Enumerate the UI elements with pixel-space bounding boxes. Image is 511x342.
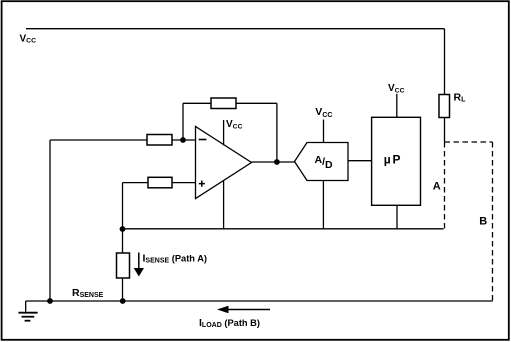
svg-text:B: B — [479, 216, 487, 228]
wire uP Vcc lead — [396, 94, 398, 118]
wire R3 left — [123, 182, 149, 184]
wire signal bus — [123, 228, 444, 230]
wire sense right vertical upper — [122, 183, 124, 253]
wire op-amp output — [252, 161, 295, 163]
wire A/D to uP — [348, 160, 372, 162]
wire Vcc rail — [26, 28, 445, 30]
wire load bus bottom — [26, 300, 493, 302]
node output junction — [274, 159, 280, 165]
wire RL top lead — [444, 29, 446, 95]
node sense left junction — [47, 298, 53, 304]
wire uP ground lead — [396, 205, 398, 229]
node feedback junction — [180, 137, 186, 143]
resistor RL — [439, 95, 450, 118]
wire A/D Vcc lead — [323, 120, 325, 143]
resistor R2 feedback — [211, 98, 236, 109]
wire op-amp ground lead — [223, 181, 225, 229]
dashed path B vertical — [492, 142, 494, 301]
resistor sense path — [117, 253, 130, 278]
wire sense right vertical lower — [122, 278, 124, 301]
wire R1 left — [50, 139, 147, 141]
microprocessor U3 — [372, 117, 421, 205]
svg-text:µP: µP — [384, 153, 403, 167]
resistor R3 plus input — [148, 177, 172, 188]
resistor R1 minus input — [147, 135, 172, 146]
wire feedback right vertical — [276, 103, 278, 162]
wire sense left vertical — [49, 140, 51, 301]
A/D converter U2 — [295, 143, 349, 181]
wire op-amp Vcc lead — [223, 120, 225, 145]
op-amp plus sign — [199, 181, 205, 187]
node signal ground tap — [120, 226, 126, 232]
wire feedback top left — [183, 102, 211, 104]
wire R3 right to op-amp — [172, 182, 196, 184]
current arrow ILOAD — [228, 309, 270, 311]
ground — [25, 301, 27, 312]
svg-text:A: A — [433, 181, 441, 193]
wire RL bottom lead — [444, 118, 446, 143]
wire A/D ground lead — [322, 181, 324, 229]
wire R1 right to op-amp — [172, 139, 196, 141]
op-amp minus sign — [199, 139, 207, 141]
wire feedback top right — [236, 102, 277, 104]
node sense right junction — [120, 298, 126, 304]
op-amp U1 — [196, 127, 252, 199]
dashed path A vertical — [444, 142, 446, 229]
current arrow ISENSE — [138, 253, 140, 270]
dashed path B horizontal — [445, 141, 493, 143]
wire feedback left vertical — [182, 103, 184, 140]
